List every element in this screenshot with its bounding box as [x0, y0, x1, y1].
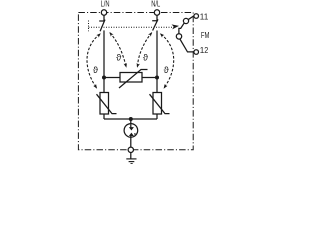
junction node bus — [129, 117, 133, 121]
left varistor body — [100, 93, 109, 115]
wire gas discharge tube to ground terminal — [130, 136, 132, 147]
wire left varistor to bus — [103, 114, 105, 119]
svg-text:L/N: L/N — [101, 0, 110, 9]
wire right varistor to bus — [156, 114, 158, 119]
central varistor diagonal arrow — [119, 70, 148, 89]
wire to central varistor right — [142, 77, 157, 79]
thermal arc outer left (dashed) — [87, 34, 100, 87]
ground stem — [130, 153, 132, 159]
thermal arc outer right (dashed) — [161, 34, 174, 87]
right varistor diagonal arrow — [150, 94, 170, 113]
svg-text:FM: FM — [201, 31, 210, 40]
linkage dotted line horizontal — [89, 26, 176, 28]
arrowhead arc outer right bottom — [162, 84, 167, 90]
FM lower blade to terminal 12 — [180, 39, 194, 52]
terminal N/L — [154, 10, 159, 15]
thermal arc inner right (dashed) — [137, 33, 151, 67]
central varistor body — [120, 73, 142, 83]
svg-text:ϑ: ϑ — [93, 64, 99, 75]
FM pivot circle — [176, 34, 181, 39]
enclosure border (dash-dot) — [78, 13, 193, 150]
svg-text:1: 1 — [204, 12, 209, 21]
wire bus to gas discharge tube — [130, 119, 132, 128]
right varistor body — [153, 93, 162, 115]
thermal disconnect switch right (tick and blade) — [152, 19, 158, 30]
FM upper fixed contact circle — [183, 18, 188, 23]
gas discharge tube arrow up — [129, 133, 134, 136]
arrowhead arc inner left bottom — [124, 63, 128, 68]
arrowhead arc outer left top — [96, 32, 102, 38]
terminal 11 — [194, 14, 199, 19]
arrowhead arc outer right top — [159, 32, 165, 38]
linkage arrowhead at FM contact — [172, 23, 180, 29]
ground terminal circle — [128, 147, 133, 152]
svg-text:N/L: N/L — [151, 0, 160, 9]
thermal disconnect switch left (tick and blade) — [99, 20, 105, 32]
junction node left — [102, 76, 106, 80]
svg-text:ϑ: ϑ — [116, 52, 122, 63]
gas discharge tube top electrode — [130, 124, 132, 127]
svg-text:ϑ: ϑ — [164, 64, 170, 75]
terminal L/N — [101, 10, 106, 15]
left varistor diagonal arrow — [97, 94, 117, 113]
gas discharge tube arrow down — [129, 127, 134, 130]
wire from N/L terminal — [156, 15, 158, 21]
bus wire — [104, 118, 157, 120]
wire right column — [156, 31, 158, 93]
svg-text:ϑ: ϑ — [143, 52, 149, 63]
gas discharge tube circle — [124, 124, 138, 138]
wire left column — [103, 30, 105, 92]
linkage dotted line vertical — [88, 21, 90, 32]
wire to central varistor left — [104, 77, 120, 79]
gas discharge tube small dot — [134, 133, 136, 135]
arrowhead arc outer left bottom — [93, 84, 98, 90]
wire from L/N terminal — [103, 15, 105, 21]
FM contact blade — [179, 23, 185, 34]
ground bar 1 — [126, 158, 136, 160]
FM contact wire from terminal 11 — [187, 16, 194, 20]
terminal 12 — [194, 50, 199, 55]
arrowhead arc inner right top — [148, 31, 154, 37]
svg-text:2: 2 — [204, 46, 208, 55]
ground bar 2 — [129, 161, 135, 163]
thermal arc inner left (dashed) — [110, 33, 126, 67]
ground bar 3 — [131, 163, 133, 165]
arrowhead arc inner right bottom — [135, 63, 139, 68]
arrowhead arc inner left top — [108, 31, 114, 37]
junction node right — [155, 76, 159, 80]
